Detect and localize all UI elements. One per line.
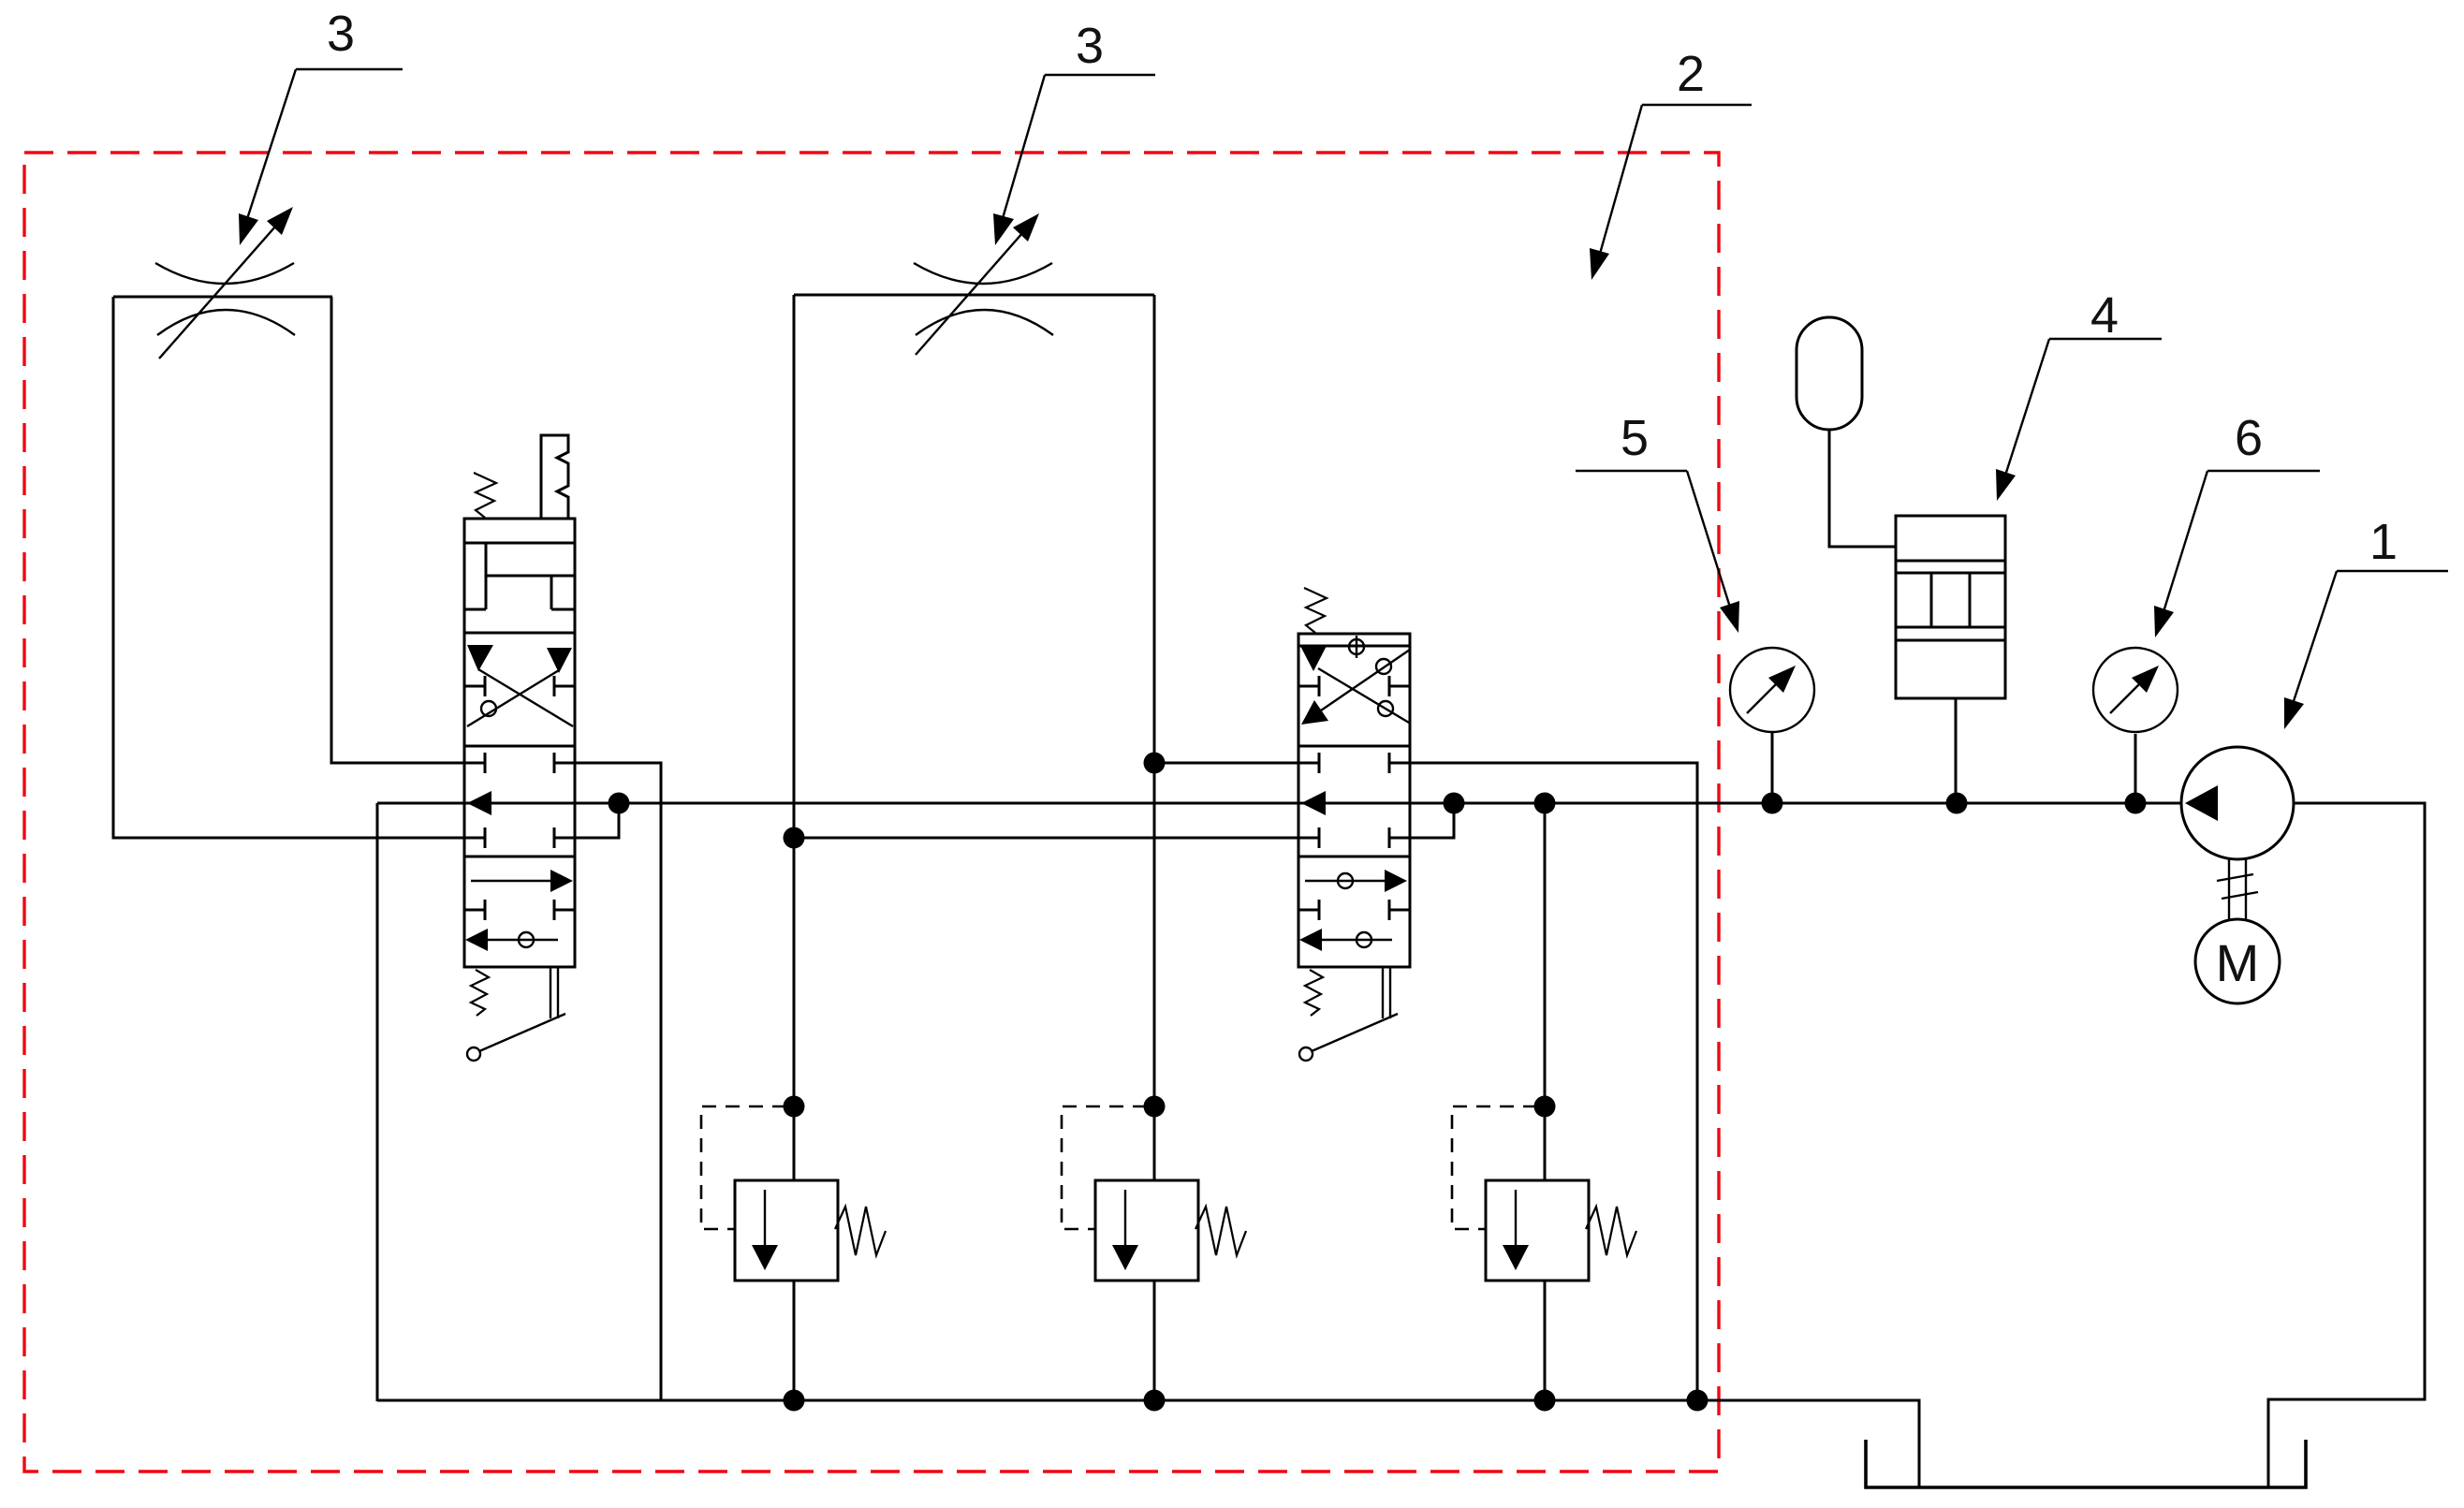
node: junction valve V1 outlet on main line bbox=[609, 793, 630, 814]
label 5 leader bbox=[1576, 471, 1732, 613]
valve V2 centre box blocked-port tees bbox=[1298, 753, 1410, 848]
wire: flow control 3b left column down to valve V2 port B line bbox=[794, 295, 1298, 838]
wire: relief valve R3 riser from main line bbox=[1544, 803, 1547, 1106]
wire: accumulator bottle stem bbox=[1829, 430, 1896, 547]
node: junction gauge 6 on main line bbox=[2125, 793, 2147, 814]
node: junction accumulator on main line bbox=[1946, 793, 1968, 814]
label 6 leader bbox=[2162, 471, 2320, 618]
wire: gauge 5 stem bbox=[1771, 732, 1774, 803]
valve V1 position box a: crossed arrows bbox=[467, 669, 573, 726]
wire: valve V2 bottom-right port L-link to main line bbox=[1410, 803, 1454, 838]
wire: bottom tank bus bbox=[377, 1400, 1919, 1487]
wire: pump outlet line down the right side to tank bbox=[2268, 803, 2425, 1486]
enclosure boundary 2 (red dashed box around valve group) bbox=[24, 153, 1719, 1471]
wire: relief valve R1 riser from V2 port-B junction bbox=[793, 838, 796, 1106]
directional control valve V1: body outline bbox=[464, 519, 575, 967]
wire: main pressure line P bbox=[377, 802, 2181, 805]
pressure relief valve R1 (with pilot line and spring) bbox=[701, 1096, 886, 1412]
flow control valve 3a (variable restrictor) bbox=[155, 218, 295, 359]
svg-text:3: 3 bbox=[327, 6, 355, 62]
label 2 leader bbox=[1598, 105, 1752, 260]
pressure gauge 6 bbox=[2093, 648, 2178, 732]
valve V1 detent mechanism (interlocked fingers) bbox=[464, 543, 575, 609]
node: junction valve V2 outlet on main line bbox=[1444, 793, 1465, 814]
svg-text:2: 2 bbox=[1677, 46, 1705, 102]
valve V1 position box b arrows bbox=[471, 881, 558, 947]
pump 1 flow triangle bbox=[2185, 785, 2218, 821]
hydraulic pump 1 bbox=[2181, 747, 2294, 859]
label 3 (middle flow control) leader bbox=[1001, 75, 1155, 225]
valve V2 box b blocked-port tees bbox=[1298, 900, 1410, 920]
electric motor M bbox=[2195, 919, 2280, 1003]
wire: flow control 3b right column down to relief R2 riser bbox=[1153, 295, 1156, 1106]
pressure gauge 5 bbox=[1730, 648, 1814, 732]
label 3 (left flow control) leader bbox=[245, 69, 403, 225]
node: junction right drop on bottom bus bbox=[1687, 1390, 1709, 1412]
pressure relief valve R3 (with pilot line and spring) bbox=[1452, 1096, 1636, 1412]
directional control valve V2: body outline bbox=[1298, 634, 1410, 967]
valve V2 position box b arrows with pilot circles bbox=[1305, 873, 1392, 947]
node: junction flow control left column / V2 port B bbox=[784, 827, 805, 849]
valve V2 pilot circle on top strip bbox=[1349, 636, 1364, 658]
valve V1 box a blocked-port tees bbox=[464, 676, 575, 696]
wire: valve V1 bottom-right port L-link to main line bbox=[575, 803, 619, 838]
wire: flow control 3b throat line bbox=[794, 294, 1154, 297]
flow control valve 3b (variable restrictor) bbox=[914, 225, 1053, 355]
valve V1 manual lever with knob bbox=[467, 967, 565, 1061]
pump-motor coupling shaft with break bbox=[2217, 859, 2258, 919]
svg-text:5: 5 bbox=[1621, 410, 1649, 466]
valve V1 centre box blocked-port tees bbox=[464, 753, 575, 848]
svg-text:3: 3 bbox=[1076, 18, 1104, 74]
wire: valve V1 top-right port to bus drop bbox=[575, 763, 661, 1400]
node: junction right column / V2 port A bbox=[1144, 753, 1166, 774]
valve V2 manual lever with knob bbox=[1299, 967, 1398, 1061]
accumulator 4: piston block bbox=[1896, 516, 2005, 698]
pressure relief valve R2 (with pilot line and spring) bbox=[1062, 1096, 1246, 1412]
wire: valve V2 port A line (top-left) bbox=[1154, 762, 1298, 765]
wire: valve V1 port A line (top-left) to flow control right column bbox=[331, 297, 464, 763]
label 4 leader bbox=[2003, 339, 2162, 481]
svg-text:4: 4 bbox=[2090, 287, 2119, 344]
wire: flow control 3a throat line bbox=[113, 296, 332, 299]
valve V1 centre box flow arrow (points left) bbox=[467, 791, 491, 815]
valve V2 position box a: crossed arrows with pilot circles bbox=[1318, 650, 1410, 723]
svg-text:1: 1 bbox=[2369, 514, 2398, 570]
valve V1 top return spring bbox=[474, 473, 496, 518]
node: junction relief R3 on main line bbox=[1534, 793, 1556, 814]
valve V1 detent plunger with notches bbox=[541, 435, 568, 519]
wire: valve V1 port B line (bottom-left) to flow control left column bbox=[113, 297, 464, 838]
valve V1 box b blocked-port tees bbox=[464, 900, 575, 920]
node: junction gauge 5 on main line bbox=[1762, 793, 1783, 814]
valve V2 top spring bbox=[1304, 588, 1327, 633]
label 1 leader bbox=[2291, 571, 2448, 710]
valve V2 bottom spring bbox=[1305, 970, 1323, 1016]
valve V2 box a blocked-port tees bbox=[1298, 676, 1410, 696]
wire: accumulator drop to main line bbox=[1955, 698, 1958, 803]
valve V1 bottom spring bbox=[471, 970, 489, 1016]
accumulator 4: gas bottle bbox=[1797, 317, 1862, 430]
svg-text:M: M bbox=[2216, 933, 2260, 992]
tank (reservoir) bbox=[1866, 1440, 2306, 1487]
wire: gauge 6 stem bbox=[2134, 734, 2137, 803]
svg-text:6: 6 bbox=[2235, 410, 2263, 466]
wire: valve V2 top-right port to right bus drop bbox=[1410, 763, 1697, 1400]
wire: left return riser from main line to bottom bus bbox=[376, 803, 379, 1401]
valve V2 centre box flow arrow (points left) bbox=[1301, 791, 1326, 815]
